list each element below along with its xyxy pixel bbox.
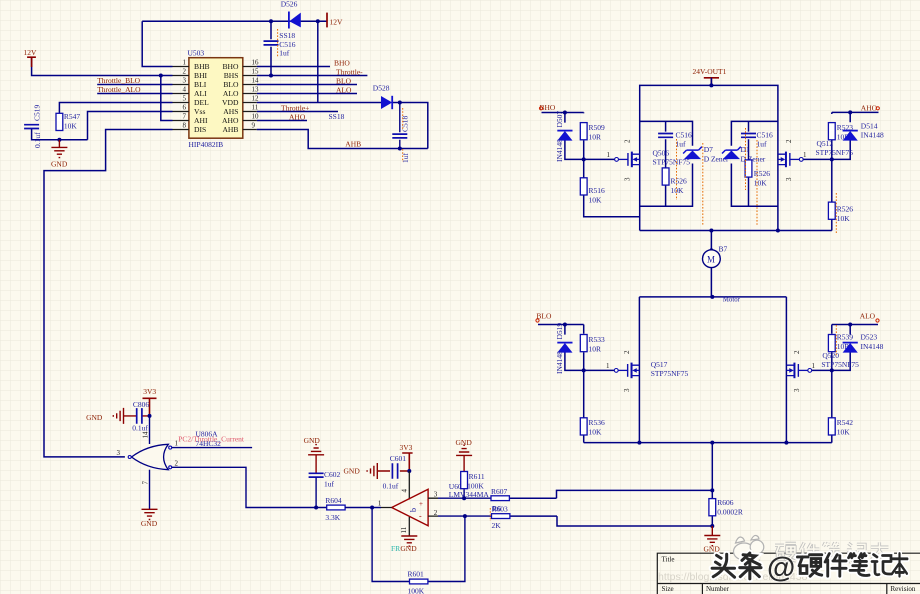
svg-text:R539: R539: [837, 332, 854, 341]
svg-text:10K: 10K: [754, 179, 768, 188]
svg-text:Number: Number: [706, 585, 730, 593]
wire Throttle_ALO pin4: [97, 93, 172, 95]
power port 24V-OUT1: [693, 67, 727, 86]
svg-text:STP75NF75: STP75NF75: [651, 369, 689, 378]
wire R604 to op-amp: [345, 507, 381, 509]
svg-text:D7: D7: [704, 145, 713, 154]
wire 3V3 to op-amp V+: [408, 471, 410, 500]
ground R611: [456, 438, 473, 471]
transistor Q512 STP75NF75: [778, 139, 853, 181]
svg-text:Q517: Q517: [651, 360, 668, 369]
wire 24V top rail: [509, 78, 878, 526]
node marker BHO: [539, 107, 542, 110]
svg-text:D526: D526: [281, 0, 298, 8]
power port 3V3 opamp: [400, 443, 413, 471]
wire Throttle+ AHS: [257, 111, 338, 113]
svg-text:15: 15: [252, 67, 260, 75]
svg-text:AHI: AHI: [194, 116, 208, 125]
wire feedback R601: [372, 508, 465, 582]
wire AHI from 12V rail: [161, 76, 173, 121]
resistor R607: [491, 487, 509, 501]
svg-text:5: 5: [183, 94, 187, 102]
power port 12V left: [24, 48, 38, 67]
ground gate pin7: [141, 470, 158, 528]
diode D526: [281, 0, 301, 29]
junction dots H-bridge: [563, 83, 852, 528]
svg-text:12V: 12V: [330, 17, 344, 26]
wire R523/R526 chain right: [831, 112, 833, 230]
capacitor C519: [24, 104, 42, 148]
svg-text:7: 7: [183, 112, 187, 120]
resistor R601: [408, 569, 428, 594]
capacitor C602: [309, 470, 341, 508]
svg-text:HIP4082IB: HIP4082IB: [189, 140, 224, 149]
wire 12V to pin2 BHI: [32, 57, 173, 76]
svg-text:Vss: Vss: [194, 107, 205, 116]
svg-text:R509: R509: [589, 123, 606, 132]
wire D528 cathode to C518 loop: [392, 103, 428, 149]
svg-text:R536: R536: [589, 418, 606, 427]
svg-text:1: 1: [812, 362, 816, 370]
wire op pin3 row: [438, 497, 491, 499]
svg-text:0.1uf: 0.1uf: [383, 481, 399, 490]
svg-text:13: 13: [252, 85, 260, 93]
svg-text:D528: D528: [373, 83, 390, 92]
svg-text:IN4148: IN4148: [861, 342, 884, 351]
svg-text:2: 2: [183, 67, 187, 75]
resistor R542: [828, 418, 853, 437]
svg-text:ALI: ALI: [194, 89, 207, 98]
svg-text:BHO: BHO: [222, 62, 239, 71]
svg-text:24V-OUT1: 24V-OUT1: [693, 67, 727, 76]
svg-text:b: b: [409, 508, 418, 512]
wire AHO net: [257, 120, 307, 122]
resistor R516: [580, 178, 605, 205]
svg-text:0.1uf: 0.1uf: [132, 423, 148, 432]
svg-text:C516: C516: [757, 131, 774, 140]
svg-text:AHO: AHO: [861, 103, 878, 112]
svg-text:GND: GND: [141, 519, 158, 528]
svg-text:R526: R526: [754, 169, 771, 178]
wire BHO net: [257, 66, 330, 68]
wire op pin2 row: [438, 515, 492, 517]
wire lower left FET vertical: [638, 297, 640, 443]
svg-text:10K: 10K: [64, 122, 78, 131]
wire R533/R536 chain: [583, 325, 585, 443]
svg-text:2: 2: [175, 459, 179, 467]
svg-text:U503: U503: [188, 48, 205, 57]
svg-text:1: 1: [183, 58, 187, 66]
svg-text:IN4148: IN4148: [861, 130, 884, 139]
wire left cell box: [640, 121, 693, 206]
wire R539/R542 chain: [831, 325, 833, 443]
wire top cells bottom rail: [640, 230, 832, 232]
op-amp U601 LMV344MA: [378, 482, 489, 526]
ground C602: [304, 436, 325, 473]
svg-text:2: 2: [624, 139, 632, 143]
svg-text:3V3: 3V3: [400, 443, 413, 452]
capacitor C516 right cell: [741, 131, 773, 149]
ground C601: [344, 463, 378, 479]
svg-text:D1: D1: [741, 145, 750, 154]
svg-text:100K: 100K: [408, 586, 425, 594]
svg-text:16: 16: [252, 58, 260, 66]
svg-text:Throttle_BLO: Throttle_BLO: [97, 76, 140, 85]
svg-text:C518: C518: [401, 115, 410, 132]
wire VDD to D528: [257, 102, 381, 104]
wire motor top: [710, 78, 712, 250]
svg-text:R6: R6: [492, 504, 501, 513]
ghost outline row: [775, 542, 888, 562]
wire AHB loop: [257, 130, 428, 149]
wire DEL to R547: [59, 103, 172, 114]
svg-text:10R: 10R: [589, 344, 602, 353]
paw logo: [734, 535, 764, 561]
svg-text:R526: R526: [837, 205, 854, 214]
svg-text:SS18: SS18: [279, 31, 295, 40]
transistor Q506 STP75NF75: [607, 139, 691, 181]
svg-text:Revision: Revision: [891, 585, 916, 593]
ground R606: [704, 526, 721, 554]
junction dots top-left: [57, 19, 401, 150]
svg-text:100K: 100K: [467, 481, 484, 490]
resistor R547: [56, 112, 80, 131]
motor B7: [703, 245, 741, 304]
svg-text:SS18: SS18: [329, 112, 345, 121]
wire gate pin1: [172, 447, 252, 449]
svg-text:2: 2: [793, 350, 801, 354]
svg-text:1: 1: [803, 151, 807, 159]
svg-text:3: 3: [117, 449, 121, 457]
wire AHO gate row: [803, 112, 878, 159]
svg-text:ALO: ALO: [860, 311, 876, 320]
svg-text:10: 10: [252, 112, 260, 120]
resistor R604: [325, 496, 345, 522]
capacitor C516 top with SS18 label: [264, 29, 296, 58]
svg-text:R533: R533: [589, 335, 606, 344]
svg-text:14: 14: [252, 76, 260, 84]
resistor R606 shunt: [709, 498, 743, 517]
svg-text:GND: GND: [400, 544, 417, 553]
svg-text:Q506: Q506: [653, 149, 670, 158]
resistor R526 gate right: [828, 202, 853, 223]
ground C806: [86, 408, 123, 424]
svg-text:STP75NF75: STP75NF75: [816, 148, 854, 157]
zener D7 right: [722, 145, 766, 164]
IC U503 HIP4082IB: [173, 48, 260, 149]
svg-text:11: 11: [400, 526, 408, 533]
capacitor C806: [124, 400, 150, 433]
svg-text:BHS: BHS: [224, 71, 239, 80]
wire sense top: [509, 490, 712, 498]
svg-text:ALO: ALO: [336, 86, 352, 95]
diode D528 SS18: [329, 83, 393, 121]
wire gate pin2 to R604 row: [172, 467, 327, 507]
diode D514 IN4148: [843, 121, 884, 140]
svg-text:D523: D523: [861, 333, 878, 342]
wire right cell box: [731, 121, 778, 206]
WIRES-TOPLEFT: [32, 21, 327, 457]
wire lower right FET vertical: [785, 297, 787, 443]
wire pin1 BHB up to top rail: [142, 21, 172, 66]
svg-text:10R: 10R: [589, 133, 602, 142]
svg-text:Throttle-: Throttle-: [336, 68, 363, 77]
wire R509 chain: [584, 113, 640, 217]
svg-text:BHO: BHO: [334, 59, 350, 68]
wire BHO gate row: [542, 113, 615, 160]
diode D523 IN4148: [843, 333, 884, 353]
resistor R603: [490, 504, 510, 530]
svg-text:AHB: AHB: [345, 139, 361, 148]
svg-text:10K: 10K: [837, 428, 851, 437]
wire 3V3 to gate pin14: [149, 416, 151, 444]
wire DIS to OR gate output: [44, 130, 173, 457]
svg-text:1: 1: [607, 151, 611, 159]
svg-text:3: 3: [434, 491, 438, 499]
svg-text:R542: R542: [837, 418, 854, 427]
svg-text:1: 1: [606, 362, 610, 370]
svg-text:3: 3: [623, 388, 631, 392]
svg-text:3: 3: [785, 177, 793, 181]
svg-text:2: 2: [785, 139, 793, 143]
resistor R611: [461, 472, 485, 499]
svg-text:4: 4: [401, 489, 409, 493]
ground op-amp pin11: [391, 517, 417, 553]
resistor R526 left cell: [662, 168, 687, 195]
wire shunt vertical: [711, 443, 713, 491]
svg-text:1uf: 1uf: [279, 49, 290, 58]
capacitor C518: [392, 103, 410, 164]
wire top rail D526: [142, 20, 327, 22]
svg-text:Motor: Motor: [723, 297, 741, 304]
svg-text:8: 8: [183, 121, 187, 129]
svg-text:D514: D514: [861, 121, 878, 130]
svg-text:Throttle_ALO: Throttle_ALO: [97, 85, 141, 94]
svg-text:R547: R547: [64, 112, 81, 121]
svg-text:C516: C516: [676, 131, 693, 140]
svg-text:BLO: BLO: [336, 77, 352, 86]
svg-text:2K: 2K: [492, 521, 502, 530]
svg-text:1uf: 1uf: [757, 140, 768, 149]
svg-text:-: -: [419, 512, 422, 521]
zener D7 left: [683, 145, 729, 164]
svg-text:BLI: BLI: [194, 80, 207, 89]
svg-text:2: 2: [434, 509, 438, 517]
resistor R509: [580, 123, 605, 142]
wire left snubber chain: [665, 121, 667, 206]
node marker AHO: [876, 107, 879, 110]
svg-text:R611: R611: [469, 472, 485, 481]
svg-text:C519: C519: [33, 104, 42, 121]
svg-text:7: 7: [142, 481, 150, 485]
wire ALO net: [257, 93, 357, 95]
svg-text:3.3K: 3.3K: [325, 513, 340, 522]
svg-text:BHI: BHI: [194, 71, 208, 80]
svg-text:3V3: 3V3: [143, 387, 156, 396]
wire R606: [711, 490, 713, 526]
or-gate U806A 74HC32: [117, 429, 222, 484]
svg-text:11: 11: [252, 103, 259, 111]
svg-text:STP75NF75: STP75NF75: [821, 360, 859, 369]
svg-text:1uf: 1uf: [324, 480, 335, 489]
svg-text:3: 3: [183, 76, 187, 84]
svg-text:ALO: ALO: [223, 89, 239, 98]
svg-text:B7: B7: [719, 245, 728, 254]
svg-text:0.1uf: 0.1uf: [33, 132, 42, 148]
WIRES-IC-RIGHT: [257, 21, 428, 148]
power port 12V right: [327, 13, 343, 28]
svg-text:+: +: [419, 500, 423, 508]
wire right snubber chain: [748, 121, 750, 206]
svg-text:AHO: AHO: [289, 112, 306, 121]
resistor R533: [580, 335, 605, 354]
svg-text:FR: FR: [391, 544, 400, 553]
svg-text:D Zener: D Zener: [741, 155, 766, 164]
capacitor C601: [377, 454, 409, 490]
svg-text:Title: Title: [662, 555, 675, 563]
resistor R536: [580, 418, 605, 437]
svg-text:GND: GND: [51, 160, 68, 169]
svg-text:GND: GND: [344, 466, 361, 475]
ground R547: [51, 140, 68, 169]
svg-text:PC2/Throttle_Current: PC2/Throttle_Current: [178, 434, 245, 443]
transistor Q520 STP75NF75: [787, 350, 860, 392]
svg-text:6: 6: [183, 103, 187, 111]
compile squiggles: [677, 128, 837, 355]
wire lower bridge top rail: [639, 296, 786, 298]
svg-text:4: 4: [183, 85, 187, 93]
svg-text:14: 14: [142, 431, 150, 439]
main dark glyph row with white halo: [712, 553, 907, 579]
svg-text:2: 2: [623, 350, 631, 354]
wire gnd row left: [32, 129, 88, 140]
svg-text:C806: C806: [133, 400, 150, 409]
power port 3V3 gate: [143, 387, 157, 416]
svg-text:AHS: AHS: [223, 107, 238, 116]
transistor Q517 STP75NF75: [606, 350, 688, 392]
svg-text:Throttle+: Throttle+: [281, 104, 309, 113]
node marker BLO: [536, 319, 539, 322]
svg-text:GND: GND: [86, 413, 103, 422]
wire sense bottom: [510, 516, 713, 526]
svg-text:Size: Size: [662, 585, 674, 593]
wire BLO net: [257, 84, 357, 86]
wire C516a to BHS: [270, 21, 272, 75]
svg-text:C516: C516: [279, 40, 296, 49]
diode D519 IN4148: [555, 323, 573, 374]
wire ALO gate row: [812, 325, 878, 371]
svg-text:0.0002R: 0.0002R: [717, 508, 743, 517]
svg-text:DEL: DEL: [194, 98, 209, 107]
svg-text:R526: R526: [671, 177, 688, 186]
wire Vss down to gnd row: [88, 112, 173, 140]
svg-text:D519: D519: [555, 323, 564, 340]
svg-text:R516: R516: [589, 186, 606, 195]
svg-text:GND: GND: [304, 436, 321, 445]
svg-text:VDD: VDD: [222, 98, 239, 107]
wire Throttle- BHS: [257, 75, 368, 77]
wire lower bridge bottom rail: [584, 442, 832, 444]
resistor R539: [828, 332, 853, 351]
svg-text:R601: R601: [408, 569, 425, 578]
svg-text:D507: D507: [555, 111, 564, 128]
svg-text:BHB: BHB: [194, 62, 210, 71]
svg-text:AHB: AHB: [222, 125, 238, 134]
svg-text:AHO: AHO: [222, 116, 239, 125]
wire motor bottom: [710, 268, 712, 297]
svg-text:10K: 10K: [589, 428, 603, 437]
diode D507 IN4148: [555, 111, 573, 162]
svg-text:M: M: [707, 255, 715, 265]
svg-text:C602: C602: [324, 470, 341, 479]
svg-text:9: 9: [252, 121, 256, 129]
svg-text:1uf: 1uf: [401, 153, 410, 164]
svg-text:@: @: [767, 552, 795, 584]
svg-text:DIS: DIS: [194, 125, 206, 134]
svg-text:R607: R607: [491, 487, 508, 496]
svg-text:C601: C601: [390, 454, 407, 463]
svg-text:12V: 12V: [24, 48, 38, 57]
resistor R523: [828, 123, 853, 142]
wire 12V down to VDD: [317, 21, 319, 102]
svg-text:3: 3: [624, 177, 632, 181]
svg-text:10K: 10K: [671, 186, 685, 195]
svg-text:10K: 10K: [837, 214, 851, 223]
svg-text:12: 12: [252, 94, 260, 102]
svg-text:BLO: BLO: [223, 80, 239, 89]
svg-text:IN4148: IN4148: [555, 139, 564, 162]
wire BLO gate row: [538, 325, 614, 371]
wire Throttle_BLO pin3: [97, 84, 172, 86]
svg-text:R606: R606: [717, 498, 734, 507]
svg-text:R604: R604: [325, 496, 342, 505]
svg-text:1uf: 1uf: [676, 140, 687, 149]
svg-text:1: 1: [378, 500, 382, 508]
svg-text:3: 3: [793, 388, 801, 392]
capacitor C516 left cell: [658, 131, 692, 149]
resistor R526 right cell: [745, 160, 770, 188]
svg-text:10K: 10K: [589, 196, 603, 205]
node marker ALO: [876, 319, 879, 322]
svg-text:IN4148: IN4148: [555, 351, 564, 374]
